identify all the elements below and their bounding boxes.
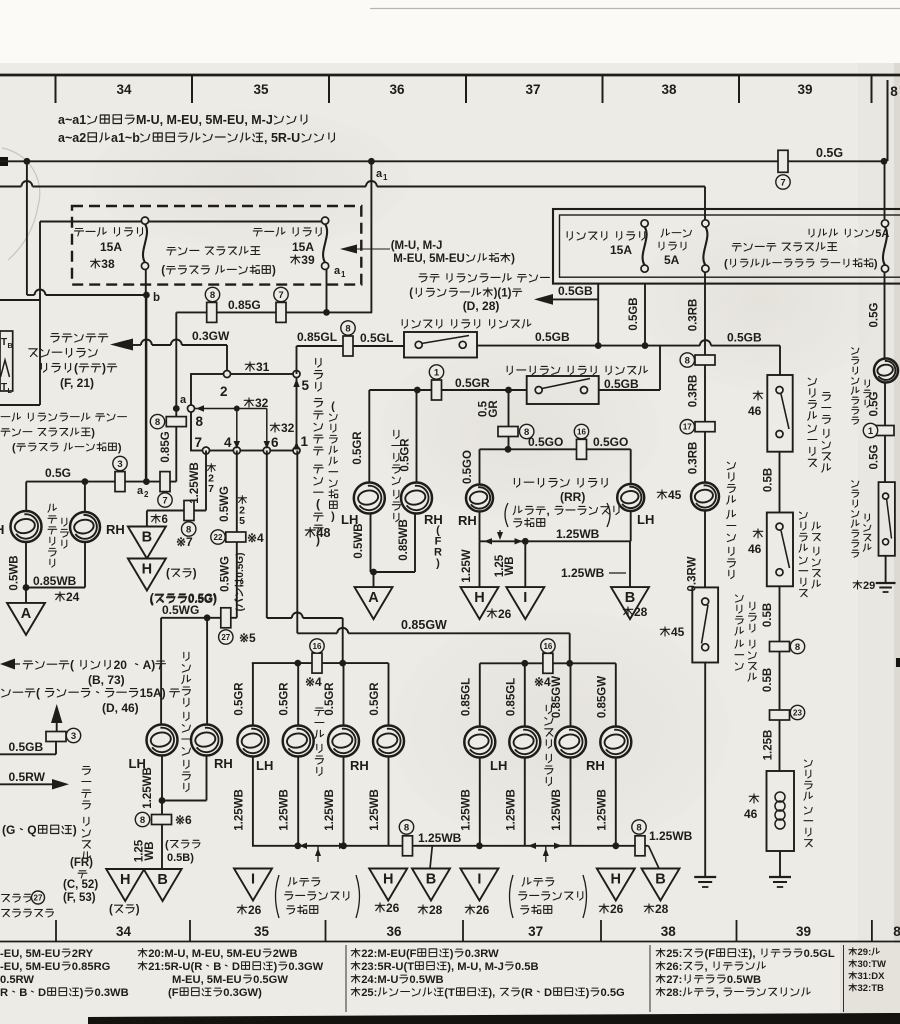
svg-text:0.5GR: 0.5GR — [279, 682, 291, 716]
svg-text:0.5G: 0.5G — [45, 466, 71, 480]
svg-text:I: I — [477, 872, 481, 888]
svg-text:0.85RG: 0.85RG — [72, 961, 111, 973]
svg-text:2WB: 2WB — [273, 948, 298, 960]
svg-text:(: ( — [316, 497, 320, 511]
svg-text:D: D — [232, 961, 240, 973]
svg-text:A: A — [368, 590, 379, 606]
svg-text:R: R — [0, 987, 8, 999]
svg-text:0.5G: 0.5G — [816, 146, 843, 160]
svg-text:0.5G: 0.5G — [869, 302, 881, 327]
svg-text:),: ), — [749, 948, 756, 960]
svg-text:31:DX: 31:DX — [858, 971, 886, 982]
svg-text:(G: (G — [2, 823, 15, 837]
svg-text:): ) — [450, 948, 454, 960]
svg-text:8: 8 — [210, 290, 215, 301]
svg-text:B: B — [625, 590, 635, 606]
svg-text:0.5GO: 0.5GO — [528, 435, 563, 449]
svg-text:1.25WB: 1.25WB — [596, 789, 608, 831]
svg-text:29: 29 — [863, 580, 875, 592]
svg-text:(: ( — [161, 265, 165, 277]
svg-text:(R: (R — [521, 987, 533, 999]
svg-text:46: 46 — [748, 404, 762, 418]
svg-text:0.5B: 0.5B — [762, 668, 774, 692]
svg-text:0.5B: 0.5B — [762, 603, 774, 627]
svg-text:46: 46 — [748, 542, 762, 556]
svg-text:0.5G: 0.5G — [869, 444, 881, 469]
svg-text:0.3WB: 0.3WB — [95, 987, 129, 999]
svg-text:27: 27 — [34, 893, 43, 902]
svg-text:(F: (F — [705, 948, 716, 960]
svg-text:16: 16 — [543, 642, 552, 651]
svg-text:, 5R-U: , 5R-U — [264, 131, 300, 145]
svg-text:RH: RH — [106, 522, 125, 537]
svg-text:): ) — [136, 904, 140, 916]
svg-text:0.85G: 0.85G — [228, 298, 261, 312]
svg-text:1.25WB: 1.25WB — [551, 789, 563, 831]
svg-text:8: 8 — [685, 355, 690, 366]
svg-text:23: 23 — [793, 708, 802, 717]
svg-text:0.3RW: 0.3RW — [687, 556, 699, 591]
svg-text:38: 38 — [101, 257, 115, 271]
svg-text:24: 24 — [66, 590, 80, 604]
svg-text:0.5GR: 0.5GR — [455, 376, 490, 390]
svg-text:0.5GL: 0.5GL — [360, 331, 393, 345]
svg-text:45: 45 — [671, 625, 685, 639]
svg-text:※5: ※5 — [239, 631, 256, 645]
svg-text:0.85GW: 0.85GW — [401, 618, 447, 632]
svg-text:7: 7 — [195, 435, 203, 450]
svg-text:0.3RW: 0.3RW — [465, 948, 499, 960]
svg-text:2: 2 — [144, 490, 149, 499]
svg-text:1.25W: 1.25W — [461, 549, 473, 582]
svg-text:D: D — [38, 987, 46, 999]
svg-text:26: 26 — [476, 903, 490, 917]
svg-text:8: 8 — [893, 924, 900, 939]
svg-text:): ) — [272, 265, 276, 277]
svg-text:1.25WB: 1.25WB — [324, 789, 336, 831]
svg-text:WB: WB — [144, 841, 156, 860]
svg-text:0.5GB: 0.5GB — [628, 297, 640, 330]
svg-text:※4: ※4 — [534, 675, 551, 689]
svg-text:1.25WB: 1.25WB — [189, 462, 201, 504]
svg-text:39: 39 — [797, 82, 812, 97]
svg-text:7: 7 — [208, 483, 214, 495]
svg-text:0.85WB: 0.85WB — [398, 519, 410, 561]
svg-text:RH: RH — [424, 512, 443, 527]
svg-text:0.5G: 0.5G — [869, 391, 881, 416]
svg-text:0.85G: 0.85G — [160, 431, 172, 462]
svg-text:34: 34 — [116, 82, 132, 97]
svg-text:0.85GW: 0.85GW — [596, 676, 608, 718]
svg-text:(: ( — [331, 400, 335, 412]
svg-text:LH: LH — [490, 758, 507, 773]
svg-text:WB: WB — [504, 556, 516, 575]
svg-text:28:: 28: — [666, 987, 682, 999]
svg-text:1: 1 — [434, 367, 440, 378]
svg-text:45: 45 — [668, 488, 682, 502]
svg-text:7: 7 — [278, 290, 283, 301]
svg-text:1.25WB: 1.25WB — [369, 789, 381, 831]
svg-text:H: H — [383, 872, 393, 888]
svg-text:34: 34 — [116, 924, 132, 939]
svg-text:35: 35 — [253, 82, 269, 97]
svg-text:6: 6 — [162, 514, 168, 526]
svg-text:8: 8 — [155, 417, 160, 428]
svg-text:1.25WB: 1.25WB — [460, 789, 472, 831]
svg-text:0.5GB: 0.5GB — [9, 740, 44, 754]
svg-text:(: ( — [166, 568, 170, 580]
svg-text:0.5WB: 0.5WB — [353, 523, 365, 558]
svg-text:38: 38 — [661, 82, 677, 97]
svg-text:L: L — [8, 388, 13, 395]
svg-text:0.85GL: 0.85GL — [460, 678, 472, 716]
svg-text:25:: 25: — [361, 987, 377, 999]
svg-text:M-U, M-EU, 5M-EU, M-J: M-U, M-EU, 5M-EU, M-J — [136, 113, 273, 127]
svg-text:0.85WB: 0.85WB — [33, 574, 77, 588]
svg-text:(: ( — [74, 361, 78, 375]
svg-text:)(1): )(1) — [494, 288, 512, 300]
svg-text:16: 16 — [313, 642, 322, 651]
svg-text:(: ( — [724, 258, 728, 270]
svg-text:(B, 73): (B, 73) — [88, 673, 125, 687]
svg-text:0.5GB: 0.5GB — [727, 331, 762, 345]
svg-text:(T: (T — [444, 987, 455, 999]
svg-text:0.5GR: 0.5GR — [400, 438, 412, 472]
svg-text:(FR): (FR) — [70, 857, 93, 869]
svg-text:21:5R-U(R: 21:5R-U(R — [148, 961, 202, 973]
svg-text:I: I — [523, 590, 527, 606]
svg-text:B: B — [655, 872, 665, 888]
svg-text:39: 39 — [796, 924, 811, 939]
svg-text:22: 22 — [214, 533, 223, 542]
svg-text:26: 26 — [610, 902, 624, 916]
svg-text:): ) — [102, 361, 106, 375]
svg-text:0.5GW: 0.5GW — [253, 974, 288, 986]
svg-text:0.5GR: 0.5GR — [369, 682, 381, 716]
svg-text:1: 1 — [341, 270, 346, 279]
svg-text:I: I — [251, 872, 255, 888]
svg-text:37: 37 — [528, 924, 543, 939]
svg-text:39: 39 — [301, 253, 315, 267]
svg-text:M-EU, 5M-EU: M-EU, 5M-EU — [393, 253, 465, 265]
svg-text:37: 37 — [525, 82, 540, 97]
svg-text:M-EU, 5M-EU: M-EU, 5M-EU — [172, 974, 242, 986]
svg-text:29:: 29: — [858, 947, 872, 958]
svg-text:-EU, 5M-EU: -EU, 5M-EU — [0, 948, 60, 960]
svg-text:17: 17 — [683, 423, 692, 432]
svg-text:36: 36 — [389, 82, 405, 97]
svg-text:0.5B): 0.5B) — [167, 852, 194, 864]
svg-text:0.5GL: 0.5GL — [804, 948, 835, 960]
svg-text:32:TB: 32:TB — [858, 983, 885, 994]
svg-text:1.25WB: 1.25WB — [233, 789, 245, 831]
svg-text:-EU, 5M-EU: -EU, 5M-EU — [0, 961, 60, 973]
svg-text:(: ( — [70, 658, 74, 672]
svg-text:28: 28 — [655, 902, 669, 916]
svg-text:1.25WB: 1.25WB — [279, 789, 291, 831]
svg-text:8: 8 — [890, 84, 898, 99]
svg-text:B: B — [142, 530, 152, 546]
svg-text:1: 1 — [383, 173, 388, 182]
svg-text:28: 28 — [634, 605, 648, 619]
svg-text:0.5WB: 0.5WB — [727, 974, 761, 986]
svg-text:※4: ※4 — [305, 675, 322, 689]
svg-text:(: ( — [109, 904, 113, 916]
svg-text:b: b — [153, 292, 160, 304]
svg-text:48: 48 — [317, 526, 331, 540]
svg-text:0.5WG: 0.5WG — [220, 556, 232, 592]
svg-text:a~a1: a~a1 — [58, 113, 86, 127]
svg-text:0.5G): 0.5G) — [188, 594, 217, 606]
svg-text:※4: ※4 — [247, 531, 264, 545]
svg-text:0.5GB: 0.5GB — [558, 284, 593, 298]
svg-text:15A: 15A — [292, 240, 314, 254]
svg-text:a: a — [334, 265, 341, 277]
svg-text:(D, 46): (D, 46) — [102, 701, 139, 715]
svg-text:26: 26 — [498, 607, 512, 621]
svg-text:8: 8 — [636, 822, 641, 833]
svg-text:0.3RB: 0.3RB — [688, 299, 700, 332]
svg-text:5A: 5A — [875, 228, 889, 240]
svg-text:): ) — [511, 253, 515, 265]
svg-text:LH: LH — [637, 512, 654, 527]
svg-text:7: 7 — [162, 495, 167, 506]
svg-text:(D, 28): (D, 28) — [463, 299, 500, 313]
svg-text:1.25WB: 1.25WB — [418, 831, 462, 845]
svg-text:5A: 5A — [664, 253, 680, 267]
svg-text:1.25WB: 1.25WB — [556, 527, 600, 541]
svg-text:23:5R-U(T: 23:5R-U(T — [361, 961, 414, 973]
svg-text:a~a2: a~a2 — [58, 131, 86, 145]
svg-text:1.25WB: 1.25WB — [649, 829, 693, 843]
svg-text:20: 20 — [114, 658, 128, 672]
svg-text:0.5WB: 0.5WB — [9, 555, 21, 590]
svg-text:RH: RH — [458, 513, 477, 528]
svg-text:8: 8 — [196, 414, 204, 429]
svg-text:1: 1 — [868, 426, 874, 437]
svg-text:8: 8 — [345, 323, 350, 334]
svg-text:B: B — [157, 872, 167, 888]
svg-text:a: a — [376, 168, 383, 180]
svg-text:(: ( — [12, 442, 16, 454]
svg-text:(F: (F — [168, 987, 179, 999]
svg-text:T: T — [1, 382, 7, 393]
svg-text:0.85GL: 0.85GL — [297, 330, 337, 344]
svg-text:15A: 15A — [100, 240, 122, 254]
svg-text:15A: 15A — [610, 243, 632, 257]
svg-text:,: , — [547, 506, 550, 518]
svg-text:5: 5 — [239, 515, 245, 527]
svg-text:H: H — [142, 562, 152, 578]
svg-text:8: 8 — [140, 815, 145, 826]
svg-text:3: 3 — [117, 459, 122, 470]
svg-text:H: H — [0, 522, 4, 537]
svg-text:GR: GR — [488, 400, 500, 418]
svg-text:28: 28 — [429, 903, 443, 917]
svg-text:8: 8 — [404, 822, 409, 833]
svg-text:0.5GR: 0.5GR — [324, 682, 336, 716]
svg-text:,: , — [716, 987, 719, 999]
svg-text:T: T — [1, 337, 7, 348]
svg-text:a: a — [137, 485, 144, 497]
svg-text:(C, 52): (C, 52) — [63, 879, 98, 891]
svg-text:a1~b: a1~b — [111, 131, 140, 145]
svg-text:0.5WG: 0.5WG — [219, 486, 231, 522]
svg-text:): ) — [73, 823, 77, 837]
svg-text:B: B — [426, 872, 436, 888]
svg-text:(M-U, M-J: (M-U, M-J — [391, 240, 443, 252]
svg-text:0.85GW: 0.85GW — [551, 676, 563, 718]
svg-text:46: 46 — [744, 807, 758, 821]
svg-text:0.5G: 0.5G — [601, 987, 626, 999]
svg-text:0.3RB: 0.3RB — [688, 442, 700, 475]
svg-text:1.25B: 1.25B — [763, 730, 775, 761]
svg-text:24:M-U: 24:M-U — [361, 974, 398, 986]
svg-text:0.5WB: 0.5WB — [409, 974, 443, 986]
svg-text:),: ), — [488, 987, 495, 999]
svg-text:0.5RW: 0.5RW — [9, 770, 46, 784]
svg-text:RH: RH — [586, 758, 605, 773]
svg-text:): ) — [80, 987, 84, 999]
svg-text:): ) — [331, 510, 335, 522]
svg-text:5: 5 — [302, 378, 310, 393]
svg-text:(: ( — [150, 594, 154, 606]
svg-text:32: 32 — [281, 421, 295, 435]
svg-text:1: 1 — [301, 434, 309, 449]
svg-text:A): A) — [143, 658, 156, 672]
svg-text:): ) — [118, 442, 122, 454]
svg-text:0.3GW: 0.3GW — [288, 961, 323, 973]
svg-text:): ) — [91, 427, 95, 439]
svg-text:0.3GW: 0.3GW — [192, 329, 230, 343]
svg-text:0.5GR: 0.5GR — [233, 682, 245, 716]
svg-text:31: 31 — [256, 360, 270, 374]
svg-text:※7: ※7 — [176, 535, 193, 549]
svg-text:35: 35 — [254, 924, 270, 939]
svg-text:27: 27 — [221, 633, 230, 642]
svg-text:B: B — [8, 343, 13, 350]
svg-text:26:: 26: — [666, 961, 682, 973]
svg-text:6: 6 — [271, 435, 279, 450]
svg-text:8: 8 — [795, 642, 800, 653]
svg-text:H: H — [474, 590, 484, 606]
svg-text:), M-U, M-J: ), M-U, M-J — [447, 961, 504, 973]
svg-text:26: 26 — [386, 901, 400, 915]
svg-text:Q: Q — [27, 823, 36, 837]
svg-text:3: 3 — [71, 731, 76, 742]
svg-text:0.5GO: 0.5GO — [593, 435, 628, 449]
svg-text:30:TW: 30:TW — [858, 959, 887, 970]
svg-text:0.3RB: 0.3RB — [688, 375, 700, 408]
svg-text:0.3GW): 0.3GW) — [223, 987, 262, 999]
svg-text:4: 4 — [224, 435, 232, 450]
svg-text:B: B — [213, 961, 221, 973]
svg-text:0.5RW: 0.5RW — [0, 974, 34, 986]
svg-text:38: 38 — [661, 924, 677, 939]
svg-text:0.5GB: 0.5GB — [604, 377, 639, 391]
svg-text:): ) — [436, 557, 440, 569]
svg-text:26: 26 — [248, 903, 262, 917]
svg-text:H: H — [611, 872, 621, 888]
svg-text:A: A — [21, 606, 32, 622]
svg-text:(F, 53): (F, 53) — [63, 892, 96, 904]
svg-text:RH: RH — [214, 756, 233, 771]
svg-text:22:M-EU(F: 22:M-EU(F — [361, 948, 416, 960]
svg-text:): ) — [874, 258, 878, 270]
svg-text:RH: RH — [350, 758, 369, 773]
svg-text:0.5GB: 0.5GB — [535, 330, 570, 344]
svg-text:2: 2 — [220, 384, 228, 399]
svg-text:(RR): (RR) — [560, 490, 585, 504]
svg-text:1.25WB: 1.25WB — [142, 767, 154, 809]
svg-text:27:: 27: — [666, 974, 682, 986]
svg-text:(F, 21): (F, 21) — [60, 376, 94, 390]
svg-text:8: 8 — [186, 524, 191, 535]
svg-text:1.25WB: 1.25WB — [561, 566, 605, 580]
svg-text:※6: ※6 — [175, 813, 192, 827]
svg-text:0.5B: 0.5B — [515, 961, 539, 973]
svg-text:0.5B: 0.5B — [763, 468, 775, 492]
svg-text:,: , — [705, 961, 708, 973]
svg-text:H: H — [120, 872, 130, 888]
svg-text:1.25WB: 1.25WB — [505, 789, 517, 831]
svg-text:(バンは0.5G): (バンは0.5G) — [234, 553, 246, 612]
svg-text:a: a — [180, 394, 187, 406]
svg-text:2RY: 2RY — [72, 948, 94, 960]
svg-text:D: D — [544, 987, 552, 999]
svg-text:): ) — [274, 961, 278, 973]
svg-text:LH: LH — [256, 758, 273, 773]
svg-text:B: B — [19, 987, 27, 999]
svg-text:7: 7 — [780, 177, 785, 188]
svg-text:0.5GR: 0.5GR — [352, 431, 364, 465]
svg-text:15A): 15A) — [140, 686, 166, 700]
svg-text:): ) — [586, 987, 590, 999]
svg-text:0.5GO: 0.5GO — [462, 450, 474, 484]
svg-text:16: 16 — [577, 427, 586, 436]
svg-text:0.85GL: 0.85GL — [505, 678, 517, 716]
svg-text:): ) — [193, 568, 197, 580]
svg-text:(: ( — [409, 288, 413, 300]
svg-text:25:: 25: — [666, 948, 682, 960]
svg-text:36: 36 — [386, 924, 402, 939]
svg-text:20:M-U, M-EU, 5M-EU: 20:M-U, M-EU, 5M-EU — [148, 948, 261, 960]
svg-text:(: ( — [165, 839, 169, 851]
svg-text:(: ( — [36, 686, 40, 700]
